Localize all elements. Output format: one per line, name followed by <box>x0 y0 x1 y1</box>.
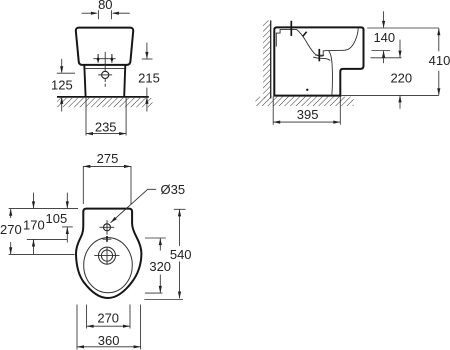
dim 80 tick right <box>110 10 112 19</box>
dim 80 right arrow <box>112 12 130 15</box>
inner bowl oval <box>84 238 133 293</box>
dim 360 ext right <box>140 305 142 350</box>
drain crosshair vertical plan <box>106 247 108 265</box>
left ext line drain center <box>9 253 75 255</box>
dim 170 upper arrow <box>32 193 35 209</box>
dim 320 top tick <box>145 237 166 239</box>
pedestal right edge <box>124 65 125 96</box>
svg-text:140: 140 <box>373 30 395 45</box>
svg-text:410: 410 <box>429 53 450 68</box>
tap hole crosshair horizontal <box>99 226 114 228</box>
bidet upper body outline <box>76 28 133 65</box>
dim 540 lower arrow <box>178 262 181 299</box>
ground hatch side <box>255 97 353 106</box>
ground hatch front <box>57 98 153 107</box>
bowl upper profile <box>296 28 358 56</box>
bidet side outline <box>274 27 363 95</box>
ground extension line <box>341 94 439 96</box>
dim 275 line <box>83 165 131 168</box>
dim 215 tick <box>142 58 153 60</box>
dim 140 lower arrow <box>382 51 385 64</box>
dim 235 line <box>86 132 126 135</box>
shelf extension line <box>371 50 390 52</box>
dim 105 tick <box>62 226 73 228</box>
tap hole crosshair vertical <box>106 220 108 235</box>
pedestal left edge <box>84 65 85 96</box>
svg-text:220: 220 <box>390 70 412 85</box>
dim 105 lower arrow <box>66 227 69 243</box>
dim 125 upper arrow <box>60 59 63 73</box>
jet hole slash <box>303 32 307 37</box>
top extension line <box>367 27 439 29</box>
dim 540 upper arrow <box>178 209 181 246</box>
dim 410 upper arrow <box>437 28 440 51</box>
dim 320 upper arrow <box>159 238 162 250</box>
drain hole circle front <box>102 71 109 78</box>
dim 320 lower arrow <box>159 275 162 293</box>
svg-text:235: 235 <box>95 120 117 135</box>
bowl bottom extension line <box>370 57 401 59</box>
svg-text:215: 215 <box>138 70 160 85</box>
drain outer circle plan <box>99 247 116 264</box>
drain hole bar side <box>318 49 320 61</box>
svg-text:275: 275 <box>97 151 119 166</box>
tap hole bar side <box>290 21 292 36</box>
dim 270 left upper arrow <box>9 209 12 218</box>
ground line front <box>57 96 149 98</box>
dim 105 upper arrow <box>66 193 69 209</box>
dim 395 ext left <box>272 97 274 125</box>
dim 220 lower arrow <box>398 95 401 108</box>
tap hole circle plan <box>104 224 111 231</box>
dim 275 ext right <box>130 166 132 204</box>
front centerline <box>104 52 106 71</box>
dim 395 line <box>273 121 340 124</box>
svg-text:270: 270 <box>97 311 119 326</box>
plan outline <box>76 209 141 298</box>
egg bottom ext line <box>144 299 183 301</box>
dim 395 ext right <box>339 97 341 125</box>
tap deck line <box>93 58 115 60</box>
drain crosshair horizontal <box>98 74 112 76</box>
dim 125 tick <box>57 72 75 74</box>
dim 235 ext left <box>85 98 87 136</box>
dim 270 left lower arrow <box>9 242 12 254</box>
dim 320 bottom tick <box>145 292 163 294</box>
svg-text:395: 395 <box>297 107 319 122</box>
svg-text:170: 170 <box>23 217 45 232</box>
svg-text:540: 540 <box>170 247 192 262</box>
dim 275 ext left <box>82 166 84 204</box>
drain crosshair horizontal plan <box>94 255 119 257</box>
dim 360 ext left <box>76 305 78 350</box>
dim 215 lower arrow <box>145 88 148 112</box>
outlet dot <box>306 89 308 91</box>
rim hole bar plan <box>106 236 108 242</box>
dim 360 line <box>77 345 141 348</box>
dim 215 upper arrow <box>145 43 148 59</box>
dim 270 bottom ext left <box>86 305 88 329</box>
leader line O35 <box>111 189 157 223</box>
back pocket lines <box>276 29 296 46</box>
pedestal top line <box>85 67 125 69</box>
svg-text:Ø35: Ø35 <box>161 182 186 197</box>
leader arrowhead <box>111 217 117 223</box>
dim 140 upper arrow <box>382 11 385 28</box>
svg-text:270: 270 <box>0 222 22 237</box>
rim hole tick plan <box>103 238 112 240</box>
wall line <box>270 20 272 98</box>
svg-text:320: 320 <box>149 259 171 274</box>
dim 270 bottom line <box>87 325 130 328</box>
svg-text:80: 80 <box>98 0 112 12</box>
svg-text:105: 105 <box>46 211 68 226</box>
dim 80 left arrow <box>82 12 98 15</box>
dim 170 lower arrow <box>32 240 35 255</box>
dim 410 lower arrow <box>437 71 440 96</box>
left ext line top edge <box>9 208 78 210</box>
tap hole mark left <box>97 54 100 63</box>
dim 125 lower arrow <box>60 97 63 112</box>
wall hatch <box>263 20 271 98</box>
dim 540 top tick <box>174 208 186 210</box>
left ext line rim top <box>27 238 67 240</box>
bowl lower profile <box>313 57 330 60</box>
dim 235 ext right <box>125 98 127 136</box>
svg-text:360: 360 <box>98 333 120 348</box>
drain inner circle plan <box>101 250 112 261</box>
drain centerline dashed <box>104 79 106 89</box>
dim 270 bottom ext right <box>129 305 131 329</box>
dim 220 upper arrow <box>398 40 401 58</box>
tap hole mark right <box>110 54 113 63</box>
drain hole cross side <box>315 54 324 56</box>
dim 80 tick left <box>97 10 99 19</box>
svg-text:125: 125 <box>51 77 73 92</box>
front pedestal inner line <box>329 51 333 95</box>
